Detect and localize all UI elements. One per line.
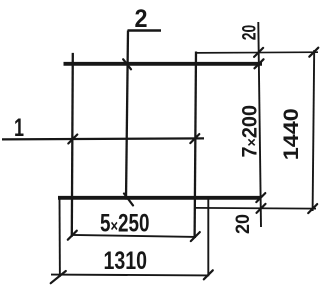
top overhang extension line [196,51,318,54]
svg-text:5×250: 5×250 [100,209,150,237]
tick at 1-1 line x V1 [68,135,77,144]
tick at V4 x bottom extension line [257,204,266,213]
svg-text:20: 20 [233,214,254,234]
dimension line 5x250 [72,235,196,237]
longitudinal bar V1 (left) [72,53,73,237]
tick at 5x250 left end [68,231,77,240]
dimension line 20 / 7x200 (vertical V4) [258,22,261,227]
tick at V2 x bottom bar (backslash) [124,194,133,206]
tick at 1440 bottom end [308,204,317,213]
svg-text:2: 2 [135,5,148,33]
dimension line 1440 (vertical V5) [313,50,315,211]
svg-text:1440: 1440 [280,108,303,160]
top transverse bar (thick) [64,62,263,66]
tick at V4 x top bar [255,59,264,68]
tick at V2 x top bar (backslash) [123,59,131,69]
longitudinal bar V3 (right) [195,52,196,239]
tick at 1-1 line x V3 [190,134,199,143]
extension line V6 (left, for 1310) [59,197,61,277]
svg-text:1310: 1310 [104,247,148,275]
svg-text:7×200: 7×200 [239,105,262,158]
tick at V4 x bottom bar [256,193,265,202]
section line 1-1 (horizontal) [2,138,204,139]
bottom transverse bar (thick) [58,196,262,200]
svg-text:20: 20 [239,25,260,41]
dimension line 1310 [51,274,209,277]
extension line V7 (right, for 1310) [207,198,209,276]
tick at 1310 left end [51,271,66,283]
section mark 2 flag line [128,29,162,31]
tick at 1310 right end [204,270,213,279]
svg-text:1: 1 [14,114,24,142]
tick at 5x250 right end [191,232,200,241]
tick at V4 x top extension line [254,48,263,57]
bottom overhang extension line [195,207,316,210]
tick at 1440 top end [309,48,318,57]
section line 2-2 (vertical V2) [126,31,128,200]
